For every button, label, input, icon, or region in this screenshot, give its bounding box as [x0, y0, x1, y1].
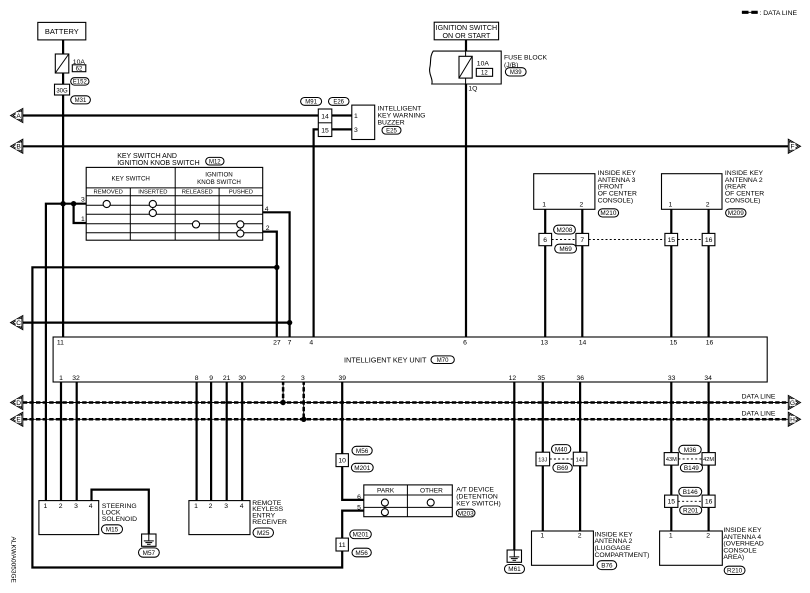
page arrow H (right)	[788, 412, 800, 426]
connector 16 (B146/R201)	[702, 495, 715, 507]
svg-text:PARK: PARK	[377, 488, 395, 495]
svg-text:M201: M201	[354, 465, 370, 472]
svg-text:IGNITION SWITCH: IGNITION SWITCH	[436, 24, 497, 32]
svg-text:2: 2	[59, 503, 63, 510]
svg-text:KEY SWITCH: KEY SWITCH	[111, 176, 149, 183]
svg-text:42M: 42M	[703, 457, 714, 463]
svg-text:21: 21	[223, 375, 231, 382]
svg-text:35: 35	[538, 375, 546, 382]
connector 42M (M36/B149)	[702, 453, 715, 466]
svg-text:12: 12	[481, 71, 488, 77]
wire key switch pin 2 to unit pin 27	[263, 232, 277, 337]
svg-text:1: 1	[542, 201, 546, 208]
svg-text:A/T DEVICE: A/T DEVICE	[456, 486, 494, 493]
svg-text:RELEASED: RELEASED	[182, 189, 213, 195]
svg-text:1: 1	[354, 113, 358, 120]
svg-text:DATA LINE: DATA LINE	[742, 410, 776, 417]
connector M31	[71, 96, 91, 104]
remote keyless entry receiver M25 box	[189, 501, 250, 535]
wire loop from pin 27 net around left/bottom to A/T device pin 5	[32, 267, 363, 567]
svg-text:3: 3	[81, 197, 85, 204]
fuse block J/B outline	[429, 51, 501, 84]
svg-text:2: 2	[281, 375, 285, 382]
svg-text:M31: M31	[75, 98, 87, 104]
svg-text:2: 2	[266, 225, 270, 232]
svg-text:2: 2	[209, 503, 213, 510]
svg-text:M40: M40	[555, 446, 568, 453]
svg-text:3: 3	[301, 375, 305, 382]
svg-text:M36: M36	[684, 447, 697, 454]
wire net B horizontal (ignition feed) to arrow F	[23, 145, 789, 147]
connector M39	[505, 68, 526, 76]
svg-text:B69: B69	[557, 465, 569, 472]
svg-text:KEY SWITCH): KEY SWITCH)	[456, 500, 500, 507]
intelligent key warning buzzer U1	[352, 105, 375, 139]
svg-text:B146: B146	[683, 489, 698, 496]
svg-text:4: 4	[309, 340, 313, 347]
svg-text:ON OR START: ON OR START	[442, 32, 490, 40]
connector M12	[206, 157, 224, 165]
svg-text:30G: 30G	[56, 88, 68, 94]
wire net C horizontal joining pin 7 net	[23, 322, 290, 324]
page arrow F (right)	[788, 139, 800, 153]
page arrow C (left)	[11, 316, 23, 330]
wire solenoid pin 4 to ground M57	[92, 490, 149, 534]
knob switch contact circles pushed	[237, 221, 244, 228]
svg-text:E: E	[16, 417, 21, 424]
svg-text:1: 1	[81, 216, 85, 223]
svg-text:9: 9	[209, 375, 213, 382]
svg-text:B: B	[16, 144, 21, 151]
svg-text:M56: M56	[356, 448, 369, 455]
data line D	[23, 401, 789, 404]
connector M56 upper	[352, 446, 372, 455]
wire net A horizontal to connector M91/E26 pin 14	[23, 114, 319, 116]
wire key switch pin 4 to unit pin 7	[263, 212, 290, 337]
svg-text:M209: M209	[728, 210, 744, 217]
wire antenna 2 pin 1 to unit pin 15	[670, 209, 672, 337]
data wire unit pin 3 rail	[303, 382, 305, 420]
wire unit pin 35 to antenna B76 pin 1	[542, 382, 544, 532]
svg-text:M12: M12	[209, 159, 221, 165]
junction pin 3 / data line E	[301, 417, 306, 422]
svg-text:CONSOLE): CONSOLE)	[598, 198, 634, 205]
A/T contact circle park lower	[384, 506, 386, 509]
svg-text:6: 6	[357, 494, 361, 501]
connector M15	[102, 525, 123, 534]
svg-text:E25: E25	[386, 129, 397, 135]
svg-text:8: 8	[195, 375, 199, 382]
connector E25	[382, 126, 401, 134]
connector 15 (B146/R201)	[665, 495, 678, 507]
data wire unit pin 2 rail	[282, 382, 284, 403]
svg-text:KEY WARNING: KEY WARNING	[378, 112, 426, 119]
svg-text:30: 30	[238, 375, 246, 382]
svg-text:43M: 43M	[666, 457, 677, 463]
inside key antenna 2 B76 box	[532, 531, 594, 565]
data line E	[23, 418, 789, 421]
svg-text:1: 1	[44, 503, 48, 510]
svg-text:16: 16	[705, 499, 713, 506]
svg-text:1Q: 1Q	[468, 86, 477, 93]
svg-text:10: 10	[338, 458, 346, 465]
connector 6 (M208/M69)	[539, 233, 552, 245]
inside key antenna 4 R210 box	[660, 531, 723, 565]
wire antenna 2 pin 2 to unit pin 16	[707, 209, 709, 337]
svg-text:6: 6	[463, 340, 467, 347]
connector M69	[555, 244, 577, 253]
wire unit pin 1 to solenoid pin 2	[60, 382, 62, 501]
connector 13J (M40/B69)	[536, 452, 550, 466]
wire unit pin 12 to ground M61	[513, 382, 515, 551]
wire connector 15 down to unit pin 4	[314, 129, 319, 337]
connector M56 lower	[352, 548, 371, 557]
junction pin 2 / data line D	[280, 400, 285, 405]
svg-text:M15: M15	[106, 527, 119, 534]
svg-text:4: 4	[89, 503, 93, 510]
dashed connector link 6-7	[552, 239, 576, 241]
connector M57	[139, 548, 160, 557]
data wire unit pin 3	[302, 381, 305, 420]
svg-text:62: 62	[76, 67, 83, 73]
connector M91	[301, 98, 322, 106]
connector M61	[505, 565, 525, 574]
svg-text:INSERTED: INSERTED	[138, 189, 167, 195]
key switch contact circles inserted	[149, 200, 156, 207]
connector B69	[553, 463, 572, 472]
svg-text:4: 4	[240, 503, 244, 510]
svg-text:2: 2	[706, 201, 710, 208]
svg-text:34: 34	[704, 375, 712, 382]
connector 30G	[55, 84, 70, 95]
svg-text:E26: E26	[333, 100, 344, 106]
connector E152	[71, 78, 89, 85]
wire unit pin 9 to receiver pin 2	[210, 382, 212, 501]
svg-text:SOLENOID: SOLENOID	[102, 516, 137, 523]
svg-text:ALKWA0053GE: ALKWA0053GE	[9, 537, 16, 584]
svg-text:13J: 13J	[538, 457, 547, 463]
svg-text:14J: 14J	[576, 457, 585, 463]
connector 15 (M208/M69)	[665, 233, 678, 245]
connector E26	[329, 98, 350, 106]
wire unit pin 39 to A/T device pin 6	[342, 382, 364, 500]
junction key switch pin3 / battery net	[60, 201, 65, 206]
connector B149	[680, 464, 702, 472]
svg-text:7: 7	[580, 237, 584, 244]
svg-text:M210: M210	[600, 210, 616, 217]
svg-text:15: 15	[670, 340, 678, 347]
svg-text:27: 27	[273, 340, 281, 347]
svg-text:14: 14	[321, 113, 329, 120]
svg-text:11: 11	[57, 340, 64, 347]
svg-text:2: 2	[706, 533, 710, 540]
svg-text:M91: M91	[305, 100, 317, 106]
svg-text:PUSHED: PUSHED	[229, 189, 253, 195]
legend data line symbol	[742, 11, 758, 13]
connector M40	[552, 445, 571, 454]
ignition switch box	[434, 22, 498, 40]
connector M70	[431, 356, 454, 364]
svg-text:C: C	[16, 320, 21, 327]
svg-text:10A: 10A	[477, 60, 490, 67]
svg-text:INTELLIGENT: INTELLIGENT	[378, 105, 422, 112]
connector M36	[679, 445, 701, 454]
svg-text:FUSE BLOCK: FUSE BLOCK	[504, 55, 548, 62]
svg-text:RECEIVER: RECEIVER	[252, 519, 287, 526]
A/T device detention key switch table	[364, 485, 453, 517]
svg-text:: DATA LINE: : DATA LINE	[760, 10, 798, 17]
data wire unit pin 2	[282, 381, 285, 403]
svg-text:6: 6	[543, 237, 547, 244]
svg-text:1: 1	[669, 533, 673, 540]
wire battery feed down to unit pin 11	[62, 40, 64, 338]
wire unit pin 21 to receiver pin 3	[226, 382, 228, 501]
battery B1	[38, 22, 86, 40]
svg-text:16: 16	[706, 340, 714, 347]
connector 7 (M208/M69)	[576, 233, 589, 245]
svg-text:R210: R210	[727, 568, 743, 575]
page arrow B (left)	[11, 139, 23, 153]
dashed connector link 43M-42M	[678, 458, 702, 460]
svg-text:M57: M57	[143, 550, 156, 557]
svg-text:33: 33	[668, 375, 676, 382]
connector cells 14 / 15	[318, 109, 332, 137]
svg-text:COMPARTMENT): COMPARTMENT)	[595, 552, 650, 559]
svg-text:M25: M25	[257, 530, 270, 537]
wire unit pin 36 to antenna B76 pin 2	[579, 382, 581, 532]
connector B146	[679, 487, 702, 496]
svg-text:AREA): AREA)	[723, 554, 744, 561]
svg-text:M70: M70	[437, 358, 449, 364]
fuse 10A 62	[55, 54, 69, 73]
svg-text:INTELLIGENT KEY UNIT: INTELLIGENT KEY UNIT	[344, 355, 427, 364]
svg-text:15: 15	[321, 127, 329, 134]
svg-text:5: 5	[357, 504, 361, 511]
wire ignition switch to fuse block	[465, 39, 467, 52]
svg-text:2: 2	[578, 533, 582, 540]
svg-text:14: 14	[579, 340, 587, 347]
svg-text:M39: M39	[510, 70, 522, 76]
wire unit pin 32 to solenoid pin 3	[76, 382, 78, 501]
wire unit pin 8 to receiver pin 1	[196, 382, 198, 501]
svg-text:OTHER: OTHER	[420, 488, 443, 495]
connector 10 (M56/M201)	[336, 454, 348, 467]
connector M209	[726, 209, 746, 217]
key switch contact circle removed	[103, 200, 110, 207]
svg-text:B149: B149	[684, 465, 699, 472]
ground M61	[507, 550, 521, 562]
dashed connector link 15-16 lower	[678, 500, 702, 502]
fuse number box 62	[72, 65, 86, 72]
wire 1Q from fuse block down to unit pin 6	[465, 84, 467, 338]
svg-text:E152: E152	[73, 80, 88, 86]
svg-text:3: 3	[74, 503, 78, 510]
svg-text:3: 3	[354, 127, 358, 134]
svg-text:M203: M203	[458, 510, 474, 517]
junction key switch pin1 jumper	[71, 201, 76, 206]
intelligent key unit M70	[53, 337, 767, 382]
dashed connector link 15-16	[678, 239, 703, 241]
fuse 10A 12 in fuse block	[459, 56, 472, 78]
wire connector 15 to buzzer pin 3	[332, 128, 352, 130]
svg-text:7: 7	[288, 340, 292, 347]
svg-text:D: D	[16, 400, 21, 407]
svg-text:13: 13	[541, 340, 549, 347]
connector R210	[724, 566, 745, 574]
wire unit pin 34 to antenna R210 pin 2	[707, 382, 709, 532]
connector M25	[253, 528, 274, 537]
wire antenna 3 pin 2 to unit pin 14	[581, 209, 583, 337]
svg-text:4: 4	[265, 206, 269, 213]
data line E rail	[23, 418, 789, 420]
svg-text:H: H	[790, 417, 795, 424]
fuse number box 12	[476, 68, 492, 76]
svg-text:1: 1	[669, 201, 673, 208]
svg-text:R201: R201	[683, 507, 699, 514]
page arrow G (right)	[788, 396, 800, 410]
connector M201 lower	[350, 530, 372, 539]
svg-text:F: F	[790, 144, 794, 151]
svg-text:12: 12	[509, 375, 517, 382]
svg-text:39: 39	[339, 375, 347, 382]
key switch table grid	[86, 167, 263, 240]
svg-text:M56: M56	[355, 550, 368, 557]
dashed connector link 7-15	[589, 239, 665, 241]
inside key antenna 3 M210 box	[534, 174, 595, 210]
svg-text:15: 15	[668, 499, 676, 506]
wire antenna 3 pin 1 to unit pin 13	[544, 209, 546, 337]
data line D rail	[23, 402, 789, 404]
svg-text:DATA LINE: DATA LINE	[742, 394, 776, 401]
page arrow E (left)	[11, 412, 23, 426]
steering lock solenoid M15 box	[39, 501, 99, 535]
svg-text:REMOVED: REMOVED	[94, 189, 123, 195]
connector 14J (M40/B69)	[573, 452, 587, 466]
svg-text:36: 36	[577, 375, 585, 382]
svg-text:A: A	[16, 113, 21, 120]
svg-text:2: 2	[580, 201, 584, 208]
wire unit pin 30 to receiver pin 4	[241, 382, 243, 501]
dashed connector link 13J-14J	[550, 458, 574, 460]
svg-text:BATTERY: BATTERY	[45, 27, 79, 36]
svg-text:M201: M201	[353, 532, 369, 539]
connector R201	[680, 506, 702, 514]
svg-text:G: G	[790, 400, 795, 407]
knob switch contact circle released	[192, 221, 199, 228]
svg-text:32: 32	[72, 375, 80, 382]
wire key switch pin 3 left and down to solenoid pin 1	[46, 204, 86, 501]
svg-text:B76: B76	[601, 563, 613, 570]
svg-text:M208: M208	[557, 227, 573, 234]
ground M57	[142, 534, 156, 546]
A/T contact circle park upper	[381, 499, 388, 506]
svg-text:IGNITION: IGNITION	[205, 171, 233, 178]
connector 16 (M208/M69)	[702, 233, 715, 245]
svg-text:M61: M61	[508, 566, 521, 573]
svg-text:IGNITION KNOB SWITCH: IGNITION KNOB SWITCH	[117, 160, 199, 167]
svg-text:(DETENTION: (DETENTION	[456, 493, 498, 500]
page arrow D (left)	[11, 396, 23, 410]
connector B76	[597, 561, 617, 570]
junction net C / pin 7 net	[287, 320, 292, 325]
svg-text:1: 1	[194, 503, 198, 510]
connector M201 upper	[351, 463, 373, 472]
svg-text:M69: M69	[559, 246, 572, 253]
inside key antenna 2 M209 box	[662, 174, 723, 210]
wire connector 14 to buzzer pin 1	[332, 114, 352, 116]
connector M210	[598, 209, 618, 217]
page arrow A (left)	[11, 109, 23, 123]
svg-text:CONSOLE): CONSOLE)	[725, 198, 761, 205]
svg-text:1: 1	[59, 375, 63, 382]
wire unit pin 33 to antenna R210 pin 1	[670, 382, 672, 532]
svg-text:BUZZER: BUZZER	[378, 119, 405, 126]
junction loop wire / pin 27 net	[274, 265, 279, 270]
A/T contact circle other	[427, 499, 434, 506]
connector M203	[456, 509, 475, 517]
connector 11 (M201/M56)	[336, 538, 348, 551]
svg-text:15: 15	[668, 237, 676, 244]
svg-text:1: 1	[540, 533, 544, 540]
connector M208	[554, 225, 576, 234]
svg-text:11: 11	[339, 542, 346, 549]
svg-text:16: 16	[705, 237, 713, 244]
svg-text:KNOB SWITCH: KNOB SWITCH	[197, 179, 241, 186]
wire key switch pin 1 jumper up to pin 3 net	[74, 203, 87, 223]
svg-text:3: 3	[224, 503, 228, 510]
connector 43M (M36/B149)	[664, 453, 678, 466]
